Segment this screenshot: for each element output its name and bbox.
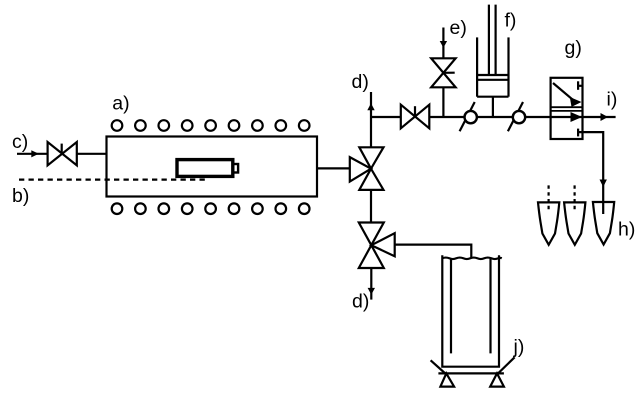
dashed wire into vessel h1: [547, 185, 549, 210]
feed wire e with down arrow: [440, 28, 447, 59]
collection vessel h1: [538, 202, 559, 244]
trap support triangle left: [440, 373, 454, 386]
label c): [12, 131, 28, 153]
wire V3 to valve G (passes under check valves): [429, 116, 550, 118]
label f): [505, 10, 517, 32]
furnace tube A: [107, 137, 318, 197]
wire valveC to furnace: [77, 153, 107, 155]
wire junction to valve V3: [371, 116, 401, 118]
svg-text:h): h): [618, 219, 635, 241]
wire valve E to main line: [442, 87, 444, 117]
wire V2 to trap J: [395, 245, 472, 258]
svg-text:i): i): [607, 89, 618, 111]
cold trap J liquid level: [442, 258, 502, 260]
label e): [450, 17, 467, 39]
valve G division lines: [551, 107, 583, 111]
valve C (inlet bowtie valve): [48, 142, 77, 165]
svg-text:d): d): [352, 71, 369, 93]
wire furnace outlet: [317, 167, 350, 169]
collection vessel h3: [593, 202, 614, 245]
trap base right diagonal: [498, 357, 515, 374]
label a): [112, 93, 129, 115]
label h): [618, 219, 635, 241]
svg-text:c): c): [12, 131, 28, 153]
label g): [565, 37, 582, 59]
selector valve G body: [551, 78, 583, 139]
check valve CV1: [460, 102, 477, 131]
svg-text:d): d): [352, 291, 369, 313]
dashed wire into vessel h2: [573, 185, 575, 210]
svg-text:j): j): [513, 336, 525, 358]
sample boat: [177, 160, 238, 177]
outlet wire i with arrow: [583, 113, 616, 121]
valve V3 (bowtie on top line): [401, 105, 430, 129]
svg-text:f): f): [505, 10, 517, 32]
trap base plate: [438, 372, 504, 374]
cold trap J inner tube walls: [451, 258, 491, 353]
valve G through-flow arrow: [551, 112, 583, 122]
label b): [12, 185, 29, 207]
wire V1 to V2: [370, 190, 372, 223]
drain wire d bottom with down arrow: [368, 268, 375, 300]
inlet wire c with arrow: [17, 150, 48, 157]
heater coil bottom row: [112, 203, 310, 214]
collection vessel h2: [564, 202, 585, 244]
svg-text:a): a): [112, 93, 129, 115]
syringe pump F: [477, 5, 508, 97]
trap base left diagonal: [431, 360, 447, 375]
trap support triangle right: [490, 373, 504, 386]
vent wire d top with up arrow: [367, 92, 374, 147]
three-way valve V1: [350, 147, 384, 190]
valve G bottom port mark: [577, 129, 579, 137]
wire G bottom port to vessel h3: [578, 132, 607, 214]
valve G crossed-flow arrow: [553, 83, 582, 107]
svg-text:e): e): [450, 17, 467, 39]
check valve CV2: [508, 102, 525, 131]
label d) top: [352, 71, 369, 93]
cold trap J outer walls: [442, 255, 499, 366]
three-way valve V2: [359, 223, 395, 269]
wire syringe to main line: [492, 97, 494, 117]
svg-text:g): g): [565, 37, 582, 59]
heater coil top row: [112, 120, 310, 131]
dashed probe line b: [19, 178, 209, 180]
label i): [607, 89, 618, 111]
label d) bottom: [352, 291, 369, 313]
valve G top port mark: [578, 81, 582, 90]
label j): [513, 336, 525, 358]
svg-text:b): b): [12, 185, 29, 207]
needle valve E (vertical bowtie): [431, 58, 455, 87]
